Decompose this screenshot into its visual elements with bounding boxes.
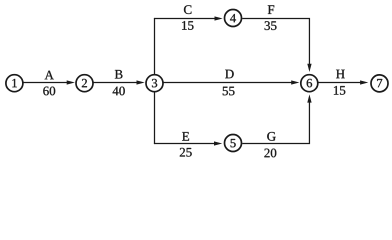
node 1 digit bbox=[12, 79, 16, 87]
arrowhead into node 6 bbox=[291, 80, 299, 84]
label H bbox=[336, 70, 345, 79]
node 6 circle bbox=[301, 75, 318, 92]
node 3 circle bbox=[146, 75, 163, 92]
wire: node3 down to bottom rail bbox=[154, 92, 156, 144]
arrowhead into node 4 bbox=[215, 16, 223, 20]
node 5 circle bbox=[225, 135, 242, 152]
value 15 bbox=[334, 86, 345, 95]
value 60 bbox=[43, 87, 55, 96]
value 35 bbox=[265, 21, 277, 30]
node 4 circle bbox=[225, 10, 242, 27]
wire A: node1 to node2 bbox=[23, 82, 67, 84]
arrowhead into node 2 bbox=[67, 80, 75, 84]
node 5 digit bbox=[231, 139, 236, 147]
value 55 bbox=[223, 87, 235, 96]
wire B: node2 to node3 bbox=[94, 82, 138, 84]
arrowhead up into node 6 bbox=[307, 94, 311, 102]
wire D: node3 to node6 bbox=[164, 82, 292, 84]
label G bbox=[267, 132, 276, 141]
node 7 circle bbox=[371, 75, 388, 92]
value 40 bbox=[113, 87, 125, 96]
node 4 digit bbox=[230, 14, 236, 22]
arrowhead into node 5 bbox=[214, 141, 222, 145]
wire H: node6 to node7 bbox=[318, 82, 360, 84]
arrowhead into node 3 bbox=[137, 80, 145, 84]
wire C: top rail to node4 bbox=[154, 18, 215, 20]
wire: node3 up to top rail bbox=[154, 18, 156, 74]
label F bbox=[268, 5, 274, 14]
label A bbox=[45, 71, 54, 80]
label C bbox=[184, 5, 192, 14]
wire E: bottom rail to node5 bbox=[154, 143, 214, 145]
wire G: node5 right then up into node6 bbox=[242, 102, 309, 143]
value 20 bbox=[264, 149, 276, 158]
label E bbox=[182, 132, 189, 141]
arrowhead into node 7 bbox=[360, 80, 368, 84]
label B bbox=[115, 70, 123, 79]
value 15 bbox=[182, 21, 193, 30]
value 25 bbox=[180, 148, 192, 157]
node 2 digit bbox=[82, 79, 87, 87]
node 2 circle bbox=[76, 75, 93, 92]
node 7 digit bbox=[377, 79, 382, 87]
node 6 digit bbox=[307, 79, 312, 87]
label D bbox=[225, 70, 234, 79]
node 1 circle bbox=[6, 75, 23, 92]
arrowhead down into node 6 bbox=[307, 64, 311, 72]
node 3 digit bbox=[152, 79, 157, 87]
wire F: node4 right then down into node6 bbox=[242, 19, 309, 65]
